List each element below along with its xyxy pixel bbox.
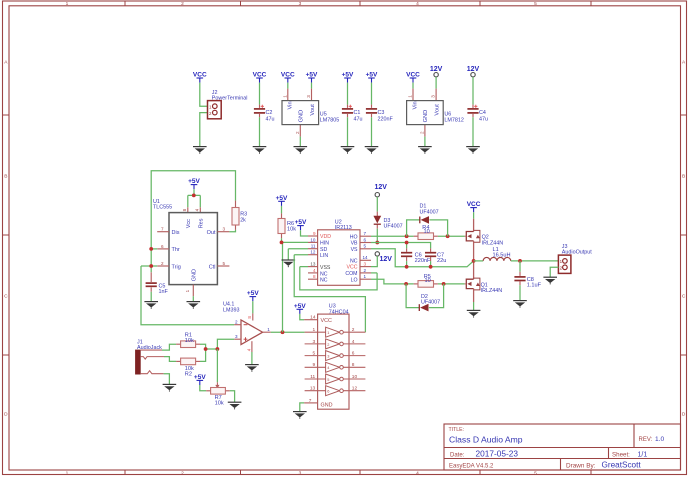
svg-text:TITLE:: TITLE: xyxy=(449,427,465,433)
wire D2 bypass loop xyxy=(406,284,444,308)
label R2 10k xyxy=(185,366,194,378)
svg-text:4: 4 xyxy=(416,1,419,7)
svg-text:GND: GND xyxy=(423,110,429,123)
svg-text:2: 2 xyxy=(419,131,424,134)
svg-text:10: 10 xyxy=(424,229,430,235)
capacitor C4 47u xyxy=(467,105,478,113)
svg-text:VB: VB xyxy=(351,241,358,247)
svg-text:13: 13 xyxy=(310,386,316,392)
ground (J3 pin2) xyxy=(543,277,557,284)
svg-text:Dis: Dis xyxy=(172,230,180,236)
junction (LO/D2 left) xyxy=(404,282,408,286)
junction (switch node) xyxy=(472,259,476,263)
ground (C8) xyxy=(513,301,527,308)
ground (below LM393) xyxy=(245,365,259,372)
wire 12V to U6 pin3 xyxy=(435,77,437,89)
svg-text:Vcc: Vcc xyxy=(186,219,192,228)
svg-text:4: 4 xyxy=(246,348,251,351)
wire C8 to ground xyxy=(519,285,521,300)
svg-text:3: 3 xyxy=(223,227,226,232)
svg-text:Vin: Vin xyxy=(287,101,293,109)
pin stubs D3 xyxy=(376,212,378,217)
net flag +5V (LM393 supply) xyxy=(247,290,259,301)
pin stubs R5 xyxy=(414,283,418,285)
svg-text:SD: SD xyxy=(320,247,327,253)
svg-text:NC: NC xyxy=(320,278,328,284)
svg-text:UF4007: UF4007 xyxy=(420,209,439,215)
svg-text:Trig: Trig xyxy=(172,264,181,270)
wire L1 to J3 pin1 xyxy=(511,260,559,262)
net flag +5V (above U5 Vout) xyxy=(306,72,318,83)
svg-text:1: 1 xyxy=(267,327,270,332)
capacitor C2 47u xyxy=(254,105,265,113)
wire VCC to C2 xyxy=(259,83,261,105)
jack tip contact xyxy=(141,349,162,351)
svg-text:14: 14 xyxy=(363,255,369,260)
wire C3 to ground xyxy=(371,117,373,146)
svg-text:6: 6 xyxy=(327,389,329,394)
svg-text:Drawn By:: Drawn By: xyxy=(566,462,596,469)
svg-text:47u: 47u xyxy=(266,116,275,122)
junction (HIN node) xyxy=(280,241,284,245)
net flag +5V (above C3) xyxy=(366,72,378,83)
svg-text:1.1uF: 1.1uF xyxy=(527,283,542,289)
svg-text:C2: C2 xyxy=(266,110,273,116)
timer U1 TLC555 xyxy=(161,208,226,292)
svg-text:2k: 2k xyxy=(240,218,246,224)
wire 12V to U2 VCC pin xyxy=(371,256,377,267)
pin stubs U5 xyxy=(287,89,289,101)
svg-text:1: 1 xyxy=(282,95,287,98)
wire mix node down to R7 wiper xyxy=(216,349,218,382)
pin stubs R6 xyxy=(281,213,283,218)
wire U6 pin2 to ground xyxy=(424,137,426,147)
pin stubs R3 xyxy=(235,201,237,208)
driver U2 IR2113 xyxy=(310,230,368,285)
svg-text:12: 12 xyxy=(352,386,358,392)
svg-text:47u: 47u xyxy=(354,116,363,122)
junction (VS/C6) xyxy=(405,265,409,269)
connector J1 audio jack body xyxy=(135,350,141,375)
junction (output node) xyxy=(518,259,522,263)
wire U1 GND pin to ground xyxy=(192,296,194,301)
svg-text:10k: 10k xyxy=(287,227,296,233)
svg-text:Res: Res xyxy=(199,218,205,228)
net flag +5V (R6 pull-up) xyxy=(276,195,288,206)
svg-text:Class D Audio Amp: Class D Audio Amp xyxy=(449,435,523,445)
svg-text:10k: 10k xyxy=(215,401,224,407)
label R6 10k xyxy=(287,221,296,233)
connector J3 AudioOutput xyxy=(558,255,571,273)
svg-text:Vin: Vin xyxy=(413,101,419,109)
net flag VCC (input, above J2) xyxy=(193,72,207,83)
pin stubs R2 xyxy=(176,360,181,362)
resistor R2 10k xyxy=(181,358,196,365)
wire VS rail xyxy=(371,249,474,267)
svg-text:11: 11 xyxy=(311,244,316,249)
svg-text:HIN: HIN xyxy=(320,241,329,247)
svg-text:3: 3 xyxy=(306,95,311,98)
label U5 LM7805 xyxy=(320,111,339,123)
pin stubs C6 xyxy=(406,248,408,252)
pin stubs R1 xyxy=(176,343,181,345)
svg-text:5: 5 xyxy=(313,351,316,357)
hex inverter U3 74HC04 xyxy=(318,314,349,409)
ground (below J2) xyxy=(193,147,207,154)
label U3 74HC04 xyxy=(329,304,349,316)
junction (VB/D3) xyxy=(375,241,379,245)
resistor R3 2k xyxy=(232,208,239,226)
capacitor C3 220nF xyxy=(366,109,377,113)
svg-text:1nF: 1nF xyxy=(159,289,169,295)
svg-text:47u: 47u xyxy=(479,116,488,122)
svg-text:2: 2 xyxy=(161,261,164,266)
wire U3 pin7 to ground xyxy=(300,403,304,412)
label J2 PowerTerminal xyxy=(212,90,248,102)
svg-text:GreatScott: GreatScott xyxy=(602,461,642,470)
wire triangle node to comparator inverting input xyxy=(141,266,234,325)
ground (U3) xyxy=(293,412,307,419)
wire J2 pin2 to ground xyxy=(200,113,208,147)
wire U5 pin2 to ground xyxy=(299,137,301,147)
ground (below C5) xyxy=(144,302,158,309)
wire VCC to J2 pin1 xyxy=(200,83,208,107)
label U2 IR2113 xyxy=(335,220,352,231)
wire LIN from inverter xyxy=(294,255,365,333)
svg-text:12V: 12V xyxy=(380,256,393,263)
pin stubs C2 xyxy=(259,105,261,108)
label J1 AudioJack xyxy=(137,339,162,351)
wire +5V to LM393 pin8 xyxy=(252,301,254,313)
label J3 AudioOutput xyxy=(562,244,592,256)
wire +5V to U3 pin14 xyxy=(300,314,304,320)
label R4 10 xyxy=(422,225,429,235)
capacitor C5 1nF xyxy=(146,283,157,286)
svg-text:VCC: VCC xyxy=(321,318,332,324)
label C8 1.1uF xyxy=(527,277,542,289)
svg-text:LM7812: LM7812 xyxy=(444,117,463,123)
svg-text:2: 2 xyxy=(181,1,184,7)
label R3 2k xyxy=(240,212,247,224)
wire +5V to U5 pin3 xyxy=(311,83,313,89)
svg-text:6: 6 xyxy=(352,351,355,357)
net flag VCC (above U5 Vin) xyxy=(281,72,295,83)
net flag VCC (above C2) xyxy=(253,72,267,83)
inverter U3 gate 1 xyxy=(305,327,366,337)
inverter U3 gate 2 xyxy=(305,339,366,349)
junction (VS/C7) xyxy=(429,265,433,269)
svg-text:11: 11 xyxy=(310,374,315,380)
wire LO to R5 xyxy=(371,279,414,284)
net flag 12V (above U6 Vout) xyxy=(430,66,443,77)
inverter U3 gate 4 xyxy=(305,362,366,372)
wire R4 right to Q2 gate xyxy=(438,235,465,237)
inverter U3 gate 5 xyxy=(305,374,366,384)
wire VB to bootstrap caps xyxy=(371,243,431,249)
wire R5 right to Q1 gate xyxy=(438,283,465,285)
capacitor C8 1.1uF xyxy=(514,277,525,281)
wire comparator output to U3 input xyxy=(271,331,305,333)
inductor L1 16.5uH xyxy=(483,257,511,260)
junction (mix) xyxy=(204,347,208,351)
pin stub LM393 pin8 xyxy=(252,313,254,320)
ground (Q1 source) xyxy=(467,310,481,317)
svg-text:2: 2 xyxy=(181,470,184,476)
wire Q1 source to ground xyxy=(473,302,475,310)
svg-text:1: 1 xyxy=(313,327,316,333)
potentiometer R7 wiper arrow xyxy=(216,382,218,387)
label Q1 IRLZ44N xyxy=(481,282,503,294)
wire R1/R2 mix junction xyxy=(200,344,217,361)
pin stubs C5 xyxy=(150,272,152,282)
pin stub U3 pin7 xyxy=(304,402,318,404)
svg-text:8: 8 xyxy=(247,316,252,319)
ground (below C1) xyxy=(341,147,355,154)
wire D1 bypass loop xyxy=(407,220,448,236)
net flag VCC (above Q2) xyxy=(467,201,481,212)
net flag 12V (above C4) xyxy=(467,66,480,77)
junction (HO/D1 left) xyxy=(405,234,409,238)
svg-text:1: 1 xyxy=(364,274,367,279)
svg-text:REV:: REV: xyxy=(639,437,653,443)
net flag +5V (555 supply) xyxy=(188,178,200,189)
wire +5V to R6 xyxy=(281,206,283,214)
svg-text:C: C xyxy=(4,294,8,300)
pin stubs C1 xyxy=(347,105,349,108)
svg-text:2017-05-23: 2017-05-23 xyxy=(476,449,519,459)
ground (below C2) xyxy=(253,147,267,154)
svg-text:4: 4 xyxy=(195,208,200,211)
pin stubs R7 xyxy=(206,390,210,392)
wire VCC to U6 pin1 xyxy=(412,83,414,89)
wire +5V to 555 Vcc/Res split xyxy=(188,189,201,207)
svg-text:3: 3 xyxy=(327,354,329,359)
svg-text:LM393: LM393 xyxy=(223,308,239,314)
svg-text:Out: Out xyxy=(207,230,216,236)
ground (below U6) xyxy=(418,147,432,154)
pin Q1 source xyxy=(473,289,475,302)
svg-text:14: 14 xyxy=(310,315,316,321)
svg-text:10: 10 xyxy=(352,374,358,380)
wire VCC to U5 pin1 xyxy=(287,83,289,89)
label C5 1nF xyxy=(159,283,169,295)
wire +5V to C1 xyxy=(347,83,349,105)
wire C5 to ground xyxy=(150,292,152,302)
pin Q2 drain xyxy=(473,219,475,232)
pin stubs U2 left xyxy=(308,235,318,237)
wire comparator output riser to HIN xyxy=(282,242,284,332)
label C1 47u xyxy=(354,110,363,122)
svg-text:IRLZ44N: IRLZ44N xyxy=(482,240,504,246)
wire Trig stub xyxy=(141,265,157,267)
svg-text:NC: NC xyxy=(320,271,328,277)
svg-text:6: 6 xyxy=(364,237,367,242)
wire VCC to Q2 drain xyxy=(473,212,475,219)
label R7 10k xyxy=(215,395,224,407)
ground (R7) xyxy=(228,402,242,409)
svg-text:12V: 12V xyxy=(374,184,387,191)
pin stubs R4 xyxy=(414,235,418,237)
svg-text:1: 1 xyxy=(327,330,329,335)
svg-text:VSS: VSS xyxy=(320,265,331,271)
ground (below C3) xyxy=(365,147,379,154)
svg-text:1/1: 1/1 xyxy=(638,452,648,459)
wire J3 pin2 to ground xyxy=(550,267,558,277)
jack sleeve contact xyxy=(141,371,164,374)
svg-text:GND: GND xyxy=(191,269,197,281)
pin stubs C8 xyxy=(519,272,521,276)
diode D1 UF4007 xyxy=(420,216,429,224)
svg-text:PowerTerminal: PowerTerminal xyxy=(212,96,248,102)
svg-text:EasyEDA V4.5.2: EasyEDA V4.5.2 xyxy=(449,463,494,469)
junction (VB/C6) xyxy=(405,241,409,245)
label C2 47u xyxy=(266,110,275,122)
svg-text:VCC: VCC xyxy=(347,265,358,271)
wire output node to C8 xyxy=(519,261,521,272)
wire Thr stub xyxy=(151,248,157,250)
svg-text:12: 12 xyxy=(310,250,316,255)
svg-text:1: 1 xyxy=(408,95,413,98)
svg-text:VDD: VDD xyxy=(320,234,331,240)
svg-text:5: 5 xyxy=(327,377,329,382)
ground (SD) xyxy=(282,260,296,267)
svg-text:8: 8 xyxy=(182,208,187,211)
label R5 10 xyxy=(424,274,431,284)
svg-text:4: 4 xyxy=(352,339,355,345)
title block xyxy=(444,424,681,470)
svg-text:5: 5 xyxy=(534,1,537,7)
svg-text:Thr: Thr xyxy=(172,247,180,253)
svg-text:C3: C3 xyxy=(378,110,385,116)
svg-text:5: 5 xyxy=(223,261,226,266)
wire 12V to C4 xyxy=(472,77,474,105)
net flag 12V (U2 VCC pin) xyxy=(375,252,392,264)
junction (Trig) xyxy=(149,264,153,268)
label Q2 IRLZ44N xyxy=(482,235,504,247)
svg-text:HO: HO xyxy=(350,234,358,240)
wire R6 to HIN xyxy=(282,238,309,242)
connector J2 PowerTerminal xyxy=(208,101,222,119)
svg-text:2: 2 xyxy=(327,342,329,347)
transistor Q1 IRLZ44N xyxy=(465,278,480,290)
junction (R4/D1 right) xyxy=(446,234,450,238)
svg-text:1: 1 xyxy=(66,1,69,7)
net flag 12V (bootstrap supply) xyxy=(374,184,387,197)
pin stubs U1 sides xyxy=(157,231,169,233)
svg-text:3: 3 xyxy=(235,334,238,339)
svg-text:2: 2 xyxy=(295,131,300,134)
svg-text:4: 4 xyxy=(416,470,419,476)
wire LM393 pin4 to ground xyxy=(251,352,253,365)
wire VSS to COM xyxy=(300,267,377,290)
svg-text:LIN: LIN xyxy=(320,253,328,259)
svg-text:8: 8 xyxy=(352,362,355,368)
wire HO to R4 xyxy=(371,235,414,237)
diode D3 UF4007 xyxy=(373,216,381,224)
pin stubs C3 xyxy=(371,105,373,108)
svg-text:R2: R2 xyxy=(185,372,192,378)
capacitor C7 22u xyxy=(425,253,436,257)
wire C1 to ground xyxy=(347,117,349,146)
svg-text:220nF: 220nF xyxy=(378,116,394,122)
label C4 47u xyxy=(479,110,488,122)
pin stub LM393 pin4 xyxy=(251,341,253,352)
svg-text:2: 2 xyxy=(364,268,367,273)
resistor R7 10k (pot body) xyxy=(211,388,226,395)
label R1 10k xyxy=(185,332,194,344)
wire tip to R1 xyxy=(162,344,176,350)
svg-text:D: D xyxy=(682,412,686,418)
label D2 UF4007 xyxy=(421,294,440,306)
svg-text:2: 2 xyxy=(235,320,238,325)
svg-text:GND: GND xyxy=(298,110,304,123)
svg-text:TLC555: TLC555 xyxy=(153,205,172,211)
svg-text:Vout: Vout xyxy=(434,104,440,116)
svg-text:Sheet:: Sheet: xyxy=(612,451,630,458)
label D3 UF4007 xyxy=(384,218,403,230)
resistor R4 10 xyxy=(418,233,434,240)
pin stubs C4 xyxy=(472,105,474,108)
svg-text:UF4007: UF4007 xyxy=(421,300,440,306)
wire COM stub xyxy=(371,272,377,274)
label U1 TLC555 xyxy=(153,199,172,211)
svg-text:B: B xyxy=(4,174,7,180)
regulator U5 LM7805 xyxy=(282,95,319,134)
svg-text:8: 8 xyxy=(313,274,316,279)
net flag +5V (U3 supply) xyxy=(294,303,306,314)
svg-text:9: 9 xyxy=(313,231,316,236)
diode D2 UF4007 xyxy=(419,304,428,312)
label D1 UF4007 xyxy=(420,204,439,216)
label U4.1 LM393 xyxy=(223,302,239,314)
svg-text:D: D xyxy=(4,412,8,418)
svg-text:9: 9 xyxy=(313,362,316,368)
wire ring to R2 xyxy=(164,357,176,362)
inverter U3 gate 6 xyxy=(305,386,366,396)
svg-text:GND: GND xyxy=(321,402,333,408)
svg-text:13: 13 xyxy=(310,262,316,267)
svg-text:5: 5 xyxy=(364,244,367,249)
capacitor C1 47u xyxy=(342,105,353,113)
svg-text:10: 10 xyxy=(310,237,316,242)
regulator U6 LM7812 xyxy=(407,95,444,134)
net flag +5V (U2 VDD) xyxy=(295,219,307,230)
junction (555 supply split) xyxy=(192,194,196,198)
svg-text:22u: 22u xyxy=(437,258,446,264)
wire C6/C7 bottoms to VS rail xyxy=(407,261,431,267)
wire mix node to comparator + input xyxy=(217,339,234,349)
wire sleeve to ground xyxy=(164,374,170,385)
wire R7 right to ground xyxy=(230,391,235,402)
label L1 16.5uH xyxy=(493,247,511,258)
svg-text:6: 6 xyxy=(161,244,164,249)
svg-text:3: 3 xyxy=(299,470,302,476)
svg-text:4: 4 xyxy=(313,268,316,273)
net flag +5V (R7) xyxy=(194,374,206,385)
pin stubs U6 xyxy=(412,89,414,101)
ground (below C4) xyxy=(466,147,480,154)
wire C4 to ground xyxy=(472,117,474,146)
svg-text:3: 3 xyxy=(299,1,302,7)
wire 555 Out to R3 bottom xyxy=(229,230,235,232)
junction (comparator output) xyxy=(281,330,285,334)
svg-text:UF4007: UF4007 xyxy=(384,224,403,230)
svg-text:IRLZ44N: IRLZ44N xyxy=(481,288,503,294)
junction (Thr) xyxy=(149,247,153,251)
svg-text:3: 3 xyxy=(431,95,436,98)
svg-text:5: 5 xyxy=(534,470,537,476)
svg-text:2: 2 xyxy=(352,327,355,333)
